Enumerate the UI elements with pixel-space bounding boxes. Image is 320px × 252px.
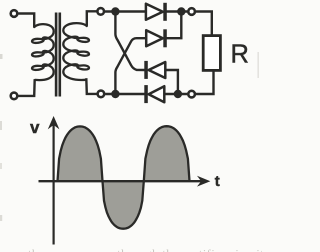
wire bottom rail to resistor — [196, 70, 214, 94]
resistor R body — [203, 36, 220, 71]
waveform sine curve — [58, 126, 190, 229]
V axis arrowhead — [49, 117, 58, 128]
graph t axis — [39, 180, 203, 182]
wire primary bottom lead — [18, 79, 35, 96]
wire D2 anode left crossing down to bottom rail — [115, 38, 146, 92]
wire top junction crossing down to D3 — [115, 13, 144, 70]
wire top rail to D1 — [105, 10, 146, 12]
svg-text:t: t — [215, 173, 220, 190]
wire top rail to resistor — [196, 12, 212, 36]
node AC1 open terminal top — [97, 8, 104, 15]
transformer core bar 2 — [59, 13, 62, 97]
waveform positive hump 1 fill — [58, 126, 103, 181]
node output+ open terminal — [188, 8, 195, 15]
diode D2 — [146, 29, 167, 47]
node output- open terminal — [188, 91, 195, 98]
transformer core bar 1 — [55, 13, 58, 97]
diode D1 — [146, 3, 167, 21]
wire secondary top lead — [87, 11, 97, 25]
diode D4 — [144, 85, 164, 103]
faint scan specks left edge — [0, 54, 3, 59]
graph V axis — [52, 124, 54, 245]
waveform positive hump 2 fill — [144, 126, 190, 181]
junction dot bottom-left — [111, 90, 119, 98]
transformer primary terminal bottom — [11, 93, 18, 100]
junction dot top-left — [111, 7, 119, 15]
wire D1 cathode to junction — [167, 10, 192, 12]
svg-text:v: v — [30, 118, 40, 137]
diode D3 — [144, 61, 165, 79]
junction dot top-right — [177, 7, 185, 15]
waveform negative hump fill — [103, 181, 144, 229]
wire primary top lead — [18, 14, 34, 28]
wire D3 anode down to bottom junction — [165, 70, 178, 94]
wire D4 anode to bottom junction — [164, 93, 187, 95]
svg-text:the wave passes through the re: the wave passes through the rectifier ci… — [28, 247, 262, 252]
transformer primary winding L1 — [32, 24, 54, 80]
wire secondary bottom lead — [86, 78, 97, 94]
wire bottom rail — [105, 93, 145, 95]
svg-text:R: R — [231, 41, 249, 69]
wire D2 cathode up to top rail — [167, 13, 182, 38]
transformer secondary winding L2 — [63, 23, 89, 80]
t axis arrowhead — [199, 177, 210, 186]
transformer primary terminal top — [11, 10, 18, 17]
node AC2 open terminal bottom — [98, 91, 105, 98]
junction dot bottom-right — [174, 90, 182, 98]
faint scan artifact right edge — [257, 52, 259, 78]
